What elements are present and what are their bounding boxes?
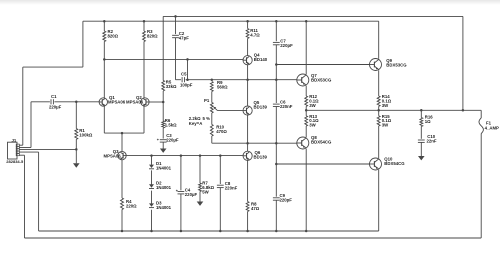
node ground rail / R4 xyxy=(121,230,124,233)
svg-text:Key=A: Key=A xyxy=(189,121,203,126)
node ground rail / D3 xyxy=(150,230,153,233)
label J1 part number xyxy=(6,159,24,164)
label Q9 xyxy=(386,58,407,68)
svg-text:P1: P1 xyxy=(204,98,210,103)
wire Q7 emitter to R12 xyxy=(305,86,307,96)
resistor R15 xyxy=(377,116,380,126)
capacitor C5 xyxy=(182,77,184,82)
wire input riser xyxy=(30,102,32,148)
resistor R11 xyxy=(246,29,249,39)
fuse F1 xyxy=(479,118,483,134)
svg-text:1N4001: 1N4001 xyxy=(156,166,172,171)
wire ground rail (lower) xyxy=(39,230,379,232)
wire C7 to C6 xyxy=(275,45,277,103)
resistor R14 xyxy=(377,96,380,106)
label D3 xyxy=(156,200,172,210)
svg-text:220pF: 220pF xyxy=(280,198,293,203)
capacitor C6 xyxy=(273,104,280,106)
svg-text:1Ω: 1Ω xyxy=(425,119,431,124)
wire feedback rail (top rail B) xyxy=(163,15,463,17)
svg-text:220µF: 220µF xyxy=(49,105,62,110)
capacitor C2 xyxy=(172,35,179,37)
wire C4 bottom xyxy=(180,194,182,231)
label C10 xyxy=(427,134,437,144)
node ground rail / C4 xyxy=(180,230,183,233)
node bias line / C4 xyxy=(180,154,183,157)
svg-text:33kΩ: 33kΩ xyxy=(166,84,177,89)
svg-text:BDX53CG: BDX53CG xyxy=(311,77,332,82)
diode D3 xyxy=(149,203,154,207)
svg-text:F1: F1 xyxy=(486,120,492,125)
label F1 xyxy=(485,120,499,130)
wire pin4 drop to ground rail xyxy=(38,152,40,231)
node bias line / R7 xyxy=(199,154,202,157)
node rail A / Q7 collector xyxy=(305,20,308,23)
svg-text:MPSA06: MPSA06 xyxy=(104,154,122,159)
resistor R5 xyxy=(162,81,165,92)
resistor R12 xyxy=(305,96,308,106)
label R12 xyxy=(309,94,319,108)
svg-text:100kΩ: 100kΩ xyxy=(79,133,93,138)
label C2 xyxy=(179,31,189,41)
resistor R2 xyxy=(103,31,106,42)
wire R11 to Q4 xyxy=(247,39,249,56)
resistor R7 xyxy=(199,183,202,192)
wire R16 top xyxy=(420,110,422,117)
label Q10 xyxy=(384,156,405,166)
wire R2 top xyxy=(103,21,105,31)
transistor Q10 xyxy=(370,158,382,170)
svg-text:C5: C5 xyxy=(181,72,187,77)
wire R16 to C10 xyxy=(420,127,422,139)
wire Q9 base xyxy=(276,64,369,66)
wire D3 to ground rail xyxy=(151,210,153,231)
label C5 xyxy=(180,72,193,88)
label R2 xyxy=(108,29,119,39)
wire R11 top xyxy=(247,21,249,28)
transistor Q2 xyxy=(141,98,149,106)
wire Q6 emitter to R8 xyxy=(247,160,249,201)
wire fuse to return rail xyxy=(480,134,482,239)
wire Q10 base xyxy=(276,163,369,165)
svg-text:1N4001: 1N4001 xyxy=(156,185,172,190)
node R9 top xyxy=(211,78,214,81)
label R6 xyxy=(165,118,177,128)
svg-text:220µF: 220µF xyxy=(185,192,198,197)
resistor R8 xyxy=(246,202,249,212)
wire Q2 base to feedback node xyxy=(149,101,163,103)
label C7 xyxy=(280,39,293,49)
wire V+ rail (top rail A) xyxy=(83,20,379,22)
wire R3 bottom to Q2 collector xyxy=(143,42,145,98)
label Q5 xyxy=(254,100,268,110)
transistor Q6 xyxy=(243,151,252,160)
svg-text:220pF: 220pF xyxy=(280,43,293,48)
label R13 xyxy=(309,114,319,128)
label Q1 xyxy=(108,95,126,104)
svg-text:BDX54CG: BDX54CG xyxy=(311,139,332,144)
transistor Q5 xyxy=(243,106,252,115)
wire jog down to J1 pin 1 xyxy=(22,67,24,145)
capacitor C3 xyxy=(160,140,167,142)
capacitor C7 xyxy=(273,42,280,44)
resistor R6 xyxy=(162,121,165,128)
svg-text:4_AMP: 4_AMP xyxy=(485,126,499,131)
label R3 xyxy=(147,29,158,39)
label R9 xyxy=(217,80,228,90)
wire R15 to Q10 emitter xyxy=(378,126,380,158)
svg-text:3W: 3W xyxy=(382,103,389,108)
label J1 xyxy=(12,138,17,143)
label Q3 xyxy=(104,149,122,159)
transistor Q4 xyxy=(243,56,252,65)
svg-text:3W: 3W xyxy=(382,123,389,128)
node ground rail / R8 xyxy=(246,230,249,233)
node ground rail / Q8 xyxy=(305,230,308,233)
wire rail B right drop xyxy=(462,16,464,110)
wire pin5 drop to return rail xyxy=(24,155,26,238)
svg-text:5W: 5W xyxy=(202,189,209,194)
wire J1 pin5 stub xyxy=(19,154,24,156)
label C4 xyxy=(185,188,198,198)
wire R14 to R15 xyxy=(378,106,380,116)
capacitor C8 xyxy=(217,185,224,187)
svg-text:220µF: 220µF xyxy=(166,138,179,143)
node R1 bottom junction xyxy=(75,148,78,151)
wire R5 top from rail B xyxy=(162,16,164,80)
wire compensation drop xyxy=(187,59,189,79)
wire output line xyxy=(306,109,481,111)
transistor Q1 xyxy=(99,98,107,106)
node tail junction xyxy=(121,132,124,135)
svg-text:MPSA06: MPSA06 xyxy=(108,100,126,105)
node drop bottom xyxy=(186,78,189,81)
connector J1 xyxy=(8,142,20,159)
label R4 xyxy=(126,199,137,209)
label R14 xyxy=(382,94,392,108)
node cap column / Q9 base xyxy=(275,63,278,66)
label D1 xyxy=(156,161,172,171)
wire Q3 base line xyxy=(126,155,243,157)
wire C10 to ground xyxy=(420,142,422,156)
svg-text:220nF: 220nF xyxy=(280,104,293,109)
resistor R3 xyxy=(143,31,146,42)
label C9 xyxy=(280,193,293,203)
label Q4 xyxy=(254,53,268,63)
svg-text:470Ω: 470Ω xyxy=(216,129,227,134)
node Q4 emitter junction xyxy=(246,78,249,81)
wire J1 pin2 stub xyxy=(19,147,31,149)
wire C5 to Q7 base xyxy=(186,79,297,81)
wire D1 to D2 xyxy=(151,170,153,184)
label D2 xyxy=(156,181,172,191)
svg-text:C1: C1 xyxy=(51,94,57,99)
capacitor C10 xyxy=(418,140,425,142)
wire R4 to ground rail xyxy=(121,210,123,232)
wire Q10 collector to ground rail xyxy=(378,170,380,231)
wire C4 top xyxy=(180,156,182,191)
svg-text:560Ω: 560Ω xyxy=(217,85,228,90)
wire Q8 collector to ground rail xyxy=(305,149,307,231)
label P1 xyxy=(204,98,210,103)
wire R3 top xyxy=(143,21,145,31)
wire Q5 collector xyxy=(247,80,249,106)
wire J1 pin3 to R1 bottom xyxy=(19,148,76,150)
wire R1 top xyxy=(75,102,77,129)
node Q8-base line / Q5 column xyxy=(246,142,249,145)
node bias line / D1 xyxy=(150,154,153,157)
svg-text:1.5kΩ: 1.5kΩ xyxy=(165,122,177,127)
capacitor C4 xyxy=(178,192,185,194)
capacitor C1 xyxy=(51,99,53,104)
svg-text:220nF: 220nF xyxy=(225,185,238,190)
svg-text:3W: 3W xyxy=(309,123,316,128)
wire P1 wiper to Q5 base xyxy=(218,110,243,112)
svg-text:820Ω: 820Ω xyxy=(147,34,158,39)
label P1 value xyxy=(189,116,210,126)
wire C8 bottom xyxy=(219,188,221,231)
node bias line / C8 xyxy=(219,154,222,157)
label C1 xyxy=(49,94,62,110)
wire Q7 collector xyxy=(305,21,307,74)
wire speaker return rail (bottom) xyxy=(25,237,482,239)
wire Q9 emitter to R14 xyxy=(378,70,380,96)
wire Q1 emitter xyxy=(103,106,105,133)
node output line / R14 R15 xyxy=(377,109,380,112)
wire C1 to Q1 base xyxy=(54,101,99,103)
wire R13 to Q8 emitter xyxy=(305,126,307,137)
svg-text:220Ω: 220Ω xyxy=(126,203,137,208)
node rail A / R11 xyxy=(246,20,249,23)
node C1/R1 junction xyxy=(75,101,78,104)
transistor Q8 xyxy=(297,137,309,149)
wire R1 bottom xyxy=(75,139,77,163)
node ground rail / C8 xyxy=(219,230,222,233)
label Q6 xyxy=(254,150,268,160)
wire C9 bottom xyxy=(275,200,277,231)
wire J1 pin4 stub xyxy=(19,151,38,153)
svg-text:BD140: BD140 xyxy=(254,57,268,62)
label R1 xyxy=(79,128,93,138)
node ground rail / cap column xyxy=(275,230,278,233)
label R5 xyxy=(166,79,177,89)
node output line / rail B drop xyxy=(462,109,465,112)
node rail A / R2 xyxy=(103,20,106,23)
wire Q1 collector to Q4 base xyxy=(104,58,243,60)
wire R9 to P1 xyxy=(211,92,213,103)
node Q1 collector / R2 xyxy=(103,58,106,61)
resistor R9 xyxy=(210,82,213,92)
svg-text:BDX54CG: BDX54CG xyxy=(384,161,405,166)
transistor Q3 xyxy=(118,151,126,159)
svg-text:100pF: 100pF xyxy=(180,82,193,87)
resistor R4 xyxy=(121,198,124,210)
wire input to C1 xyxy=(31,101,50,103)
ground below C3 xyxy=(160,149,167,153)
label C4 plus xyxy=(176,189,179,193)
wire C6 to C9 xyxy=(275,107,277,197)
wire R8 to ground rail xyxy=(247,212,249,232)
label C3 plus xyxy=(157,138,160,142)
wire R7 to ground xyxy=(199,192,201,202)
svg-text:BD139: BD139 xyxy=(254,155,268,160)
wire P1 to R10 xyxy=(211,113,213,125)
wire tail to Q3 xyxy=(121,133,123,151)
svg-text:4.7Ω: 4.7Ω xyxy=(250,33,260,38)
label Q2 xyxy=(126,95,144,104)
node feedback node R5/R6 xyxy=(162,101,165,104)
node cap column / Q10 base xyxy=(275,163,278,166)
wire R10 to Q8 base xyxy=(212,142,297,144)
potentiometer P1 xyxy=(210,103,213,114)
wire C2 corner to C5 xyxy=(176,79,182,81)
wire R6 to C3 xyxy=(162,128,164,139)
wire Q1 collector xyxy=(103,59,105,98)
node Q8-base line / cap column xyxy=(275,142,278,145)
wire Q4 emitter xyxy=(247,65,249,80)
label R16 xyxy=(425,114,433,124)
label R10 xyxy=(216,124,227,134)
wire emitter join xyxy=(104,132,144,134)
svg-text:BDX53CG: BDX53CG xyxy=(386,62,407,67)
wire C2 bottom xyxy=(175,38,177,80)
resistor R10 xyxy=(210,125,213,137)
label Q8 xyxy=(311,135,332,145)
wire R7 top xyxy=(199,156,201,183)
node rail A / R3 xyxy=(143,20,146,23)
wire D2 to D3 xyxy=(151,191,153,204)
svg-text:BD139: BD139 xyxy=(254,105,268,110)
wire C8 top xyxy=(219,156,221,184)
label Q7 xyxy=(311,73,332,83)
wiper arrow P1 xyxy=(213,107,217,111)
wire R12 to R13 xyxy=(305,106,307,116)
capacitor C9 xyxy=(273,198,280,200)
wire C7 top xyxy=(275,21,277,41)
ground below R1 xyxy=(73,163,80,167)
svg-text:MPSA06: MPSA06 xyxy=(126,100,144,105)
node output line / R12 R13 xyxy=(305,109,308,112)
svg-text:47pF: 47pF xyxy=(179,36,189,41)
node output line / R16 xyxy=(420,109,423,112)
transistor Q7 xyxy=(297,74,309,86)
svg-text:47Ω: 47Ω xyxy=(251,206,260,211)
wire C3 to ground xyxy=(162,142,164,148)
wire rail A left drop xyxy=(82,21,84,67)
svg-text:J1: J1 xyxy=(12,138,17,143)
transistor Q9 xyxy=(370,59,382,71)
wire C2 top xyxy=(175,16,177,34)
ground below R7 xyxy=(197,202,204,206)
label C6 xyxy=(280,100,293,110)
wire rail A right drop to Q9 xyxy=(378,21,380,59)
svg-text:22nF: 22nF xyxy=(427,139,437,144)
resistor R13 xyxy=(305,116,308,126)
wire Q2 emitter xyxy=(143,106,145,133)
label C3 xyxy=(166,133,179,143)
wire R5 bottom xyxy=(162,91,164,121)
label R8 xyxy=(251,201,260,211)
svg-text:820Ω: 820Ω xyxy=(108,34,119,39)
svg-text:3W: 3W xyxy=(309,103,316,108)
wire Q5 emitter to Q6 xyxy=(247,115,249,151)
ground below C10 xyxy=(418,156,425,160)
node rail B / C2 xyxy=(174,15,177,18)
label R7 xyxy=(202,180,214,194)
svg-text:5 %: 5 % xyxy=(203,116,211,121)
wire jog horizontal xyxy=(23,66,83,68)
resistor R1 xyxy=(75,129,78,140)
label R15 xyxy=(382,114,392,128)
wire D chain top xyxy=(151,156,153,165)
wire R2 bottom to node xyxy=(103,42,105,60)
diode D1 xyxy=(149,165,154,169)
wire J1 pin1 stub xyxy=(19,144,23,146)
wire Q3 emitter xyxy=(121,160,123,198)
diode D2 xyxy=(149,184,154,188)
svg-text:282834-5: 282834-5 xyxy=(6,159,24,164)
wire R10 bottom corner xyxy=(211,136,213,143)
label R11 xyxy=(250,28,260,38)
svg-text:1N4001: 1N4001 xyxy=(156,205,172,210)
label C8 xyxy=(225,181,238,191)
resistor R16 xyxy=(420,118,423,127)
node rail A / C7 xyxy=(275,20,278,23)
wire output to fuse xyxy=(480,110,482,118)
node drop top xyxy=(186,58,189,61)
node C7 bottom junction xyxy=(275,78,278,81)
